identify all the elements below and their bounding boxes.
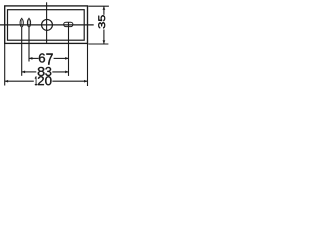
circle vertical centerline bbox=[46, 2, 48, 43]
horizontal slot obround bbox=[64, 22, 73, 26]
horizontal slot extension line bbox=[68, 22, 70, 76]
mounting circle bbox=[42, 19, 53, 30]
bottom extension line (35) bbox=[88, 43, 108, 45]
dim line 120 right shaft bbox=[52, 80, 87, 82]
arrowhead 120 right bbox=[84, 80, 87, 83]
slot S2 extension line bbox=[28, 18, 30, 62]
slot S2 oval bbox=[27, 19, 30, 27]
horizontal centerline bbox=[0, 24, 94, 26]
right extension line (120) bbox=[87, 43, 89, 86]
slot S1 oval bbox=[20, 19, 23, 27]
dim line 67 right shaft bbox=[54, 57, 69, 59]
arrowhead 35 top bbox=[103, 6, 106, 9]
arrowhead 120 left bbox=[5, 80, 8, 83]
arrowhead 35 bottom bbox=[103, 40, 106, 43]
label 67 bbox=[39, 53, 53, 64]
slot S1 inner centerline bbox=[21, 20, 23, 26]
top extension line (35) bbox=[88, 5, 109, 7]
label 83 bbox=[38, 67, 52, 76]
label 35 (rotated) bbox=[98, 15, 105, 28]
slot S1 extension line bbox=[21, 18, 23, 76]
arrowhead 83 left bbox=[22, 71, 25, 74]
dim line 35 top segment bbox=[103, 6, 105, 14]
dim line 67 left shaft bbox=[29, 57, 39, 59]
arrowhead 67 left bbox=[29, 57, 32, 60]
slot S2 inner centerline bbox=[28, 20, 30, 26]
left extension line (120) bbox=[4, 43, 6, 85]
arrowhead 83 right bbox=[65, 71, 68, 74]
dim line 35 bottom segment bbox=[103, 30, 105, 44]
arrowhead 67 right bbox=[65, 57, 68, 60]
dim line 83 left shaft bbox=[22, 71, 37, 73]
dim line 83 right shaft bbox=[52, 71, 68, 73]
label 120 bbox=[35, 76, 51, 85]
dim line 120 left shaft bbox=[5, 80, 34, 82]
plate outer rectangle bbox=[5, 6, 88, 44]
plate inner rectangle bbox=[8, 10, 85, 41]
